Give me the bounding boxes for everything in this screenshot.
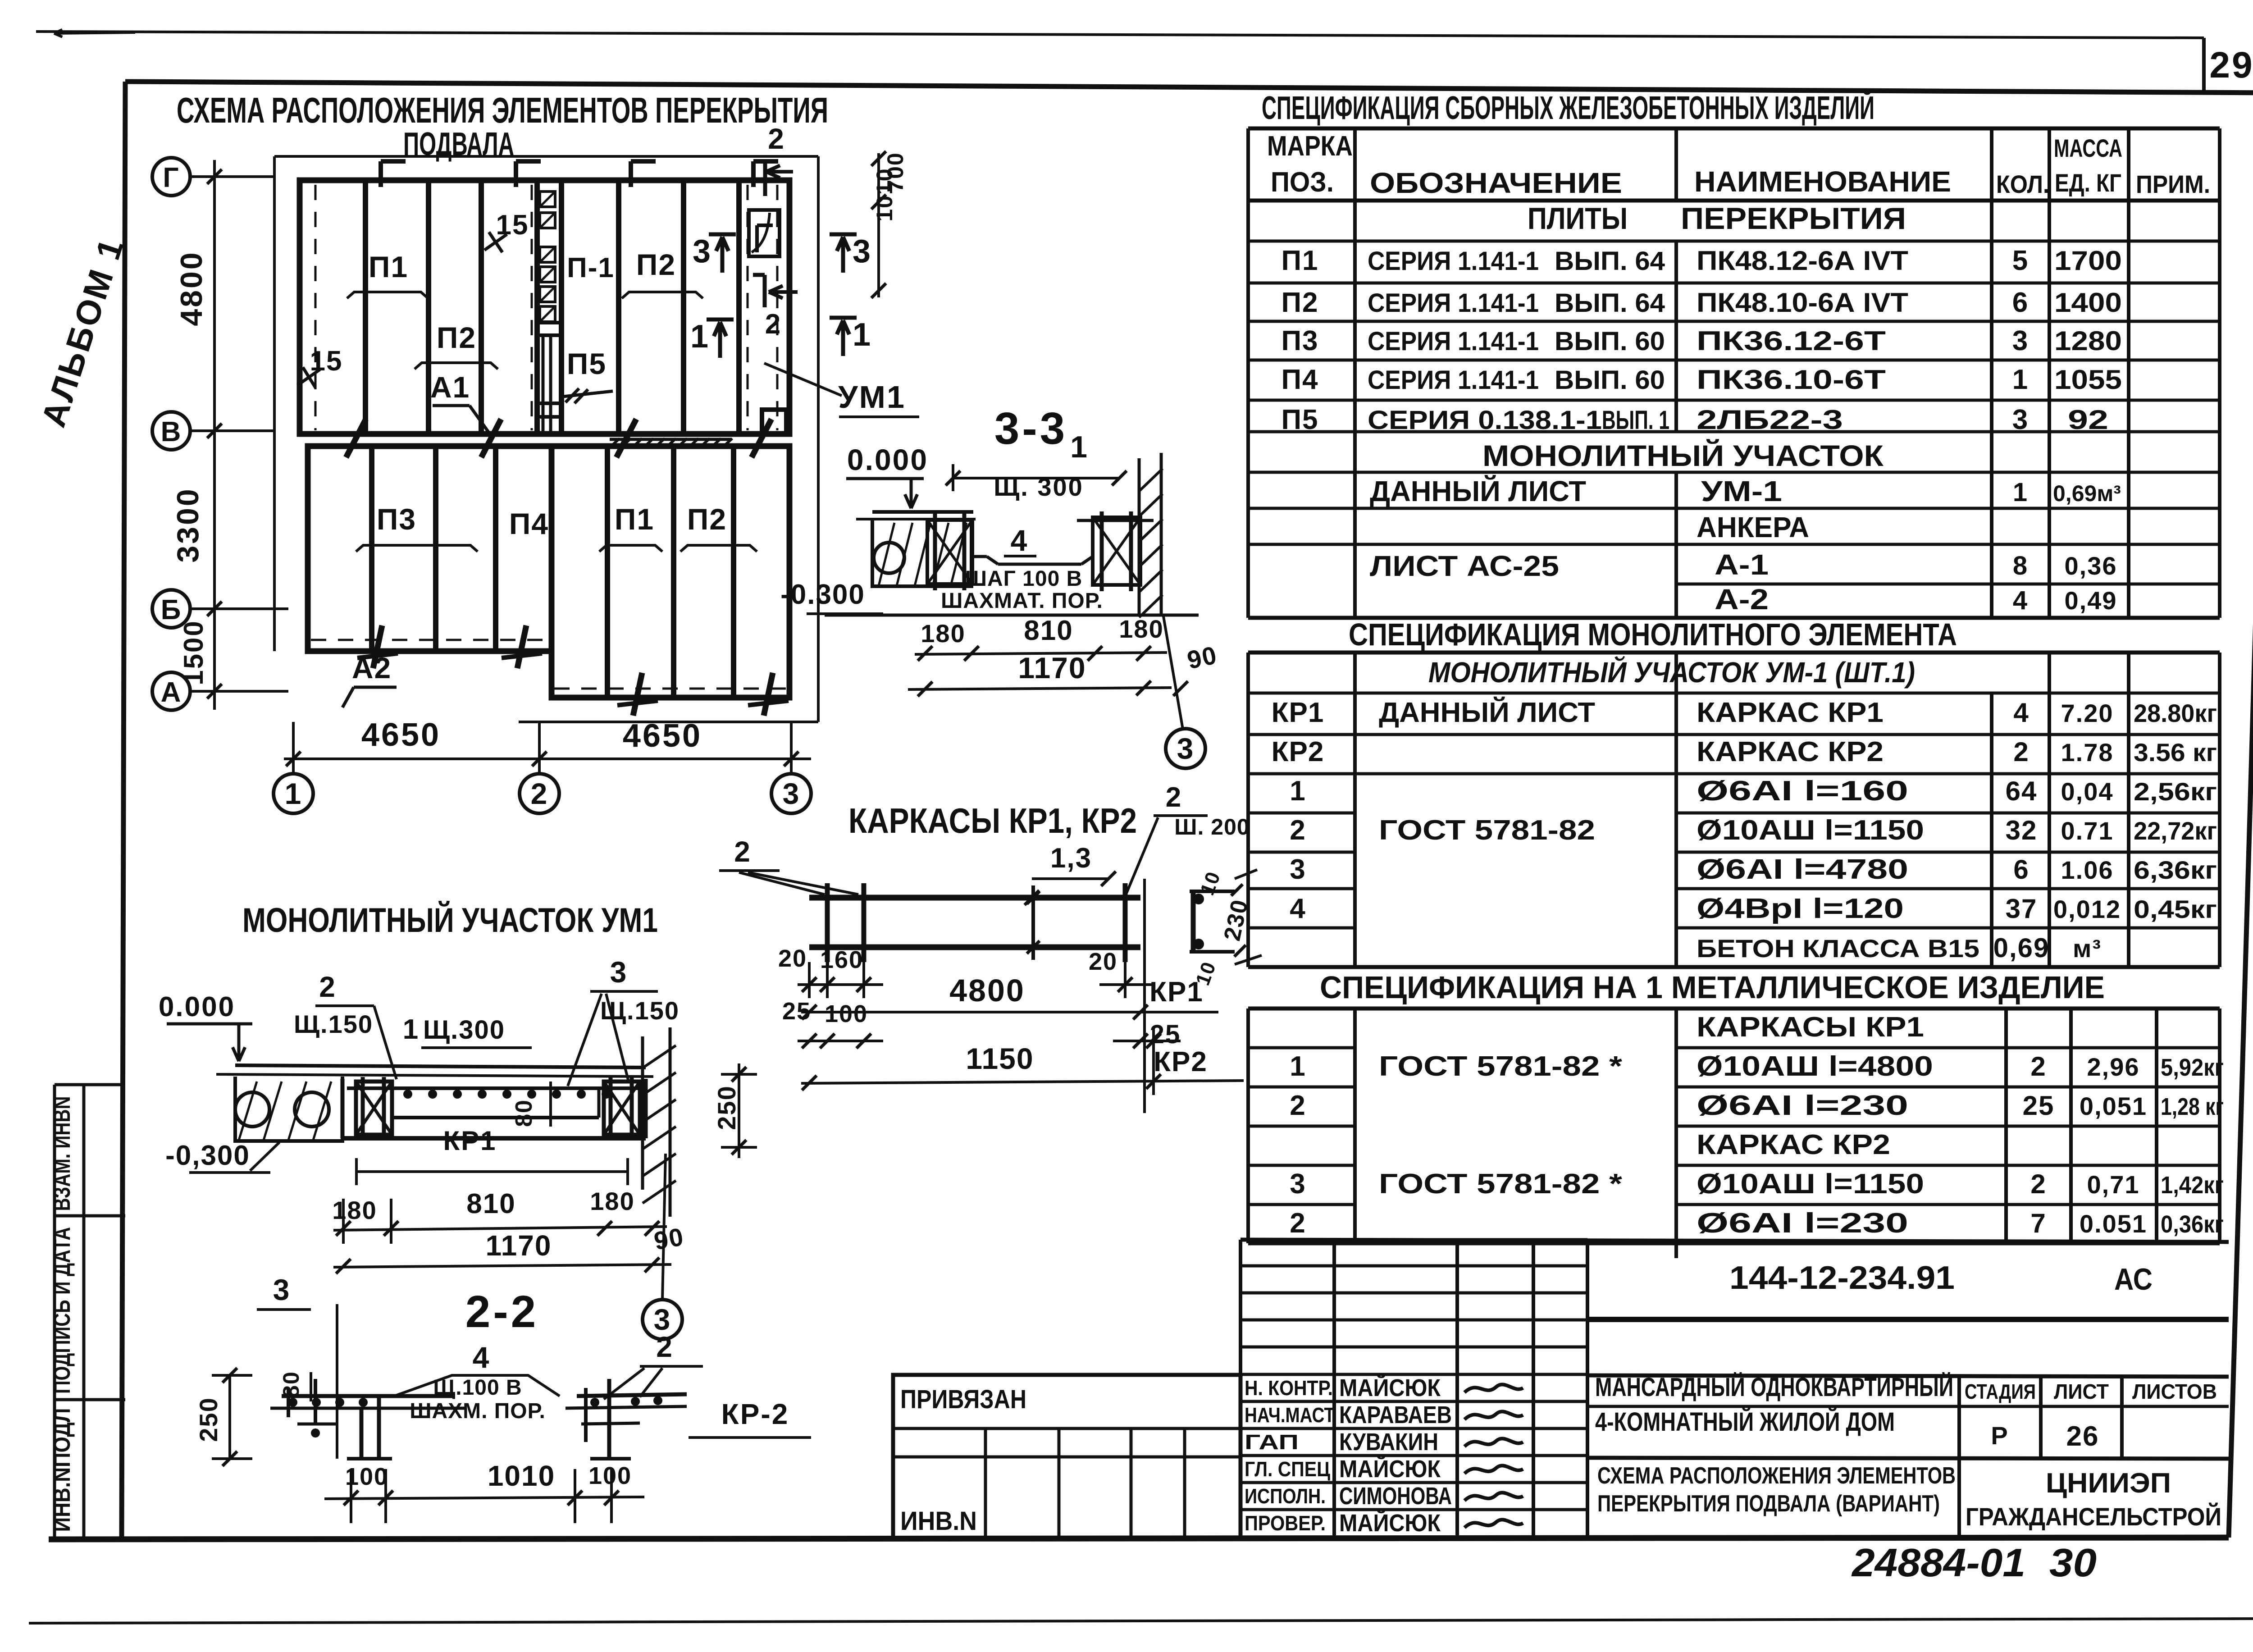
svg-text:ПК48.10-6А IVТ: ПК48.10-6А IVТ	[1697, 288, 1908, 318]
svg-text:1: 1	[2013, 478, 2028, 507]
svg-text:3: 3	[1177, 732, 1195, 765]
svg-text:П1: П1	[369, 250, 408, 283]
svg-text:0,36кг: 0,36кг	[2161, 1211, 2224, 1238]
svg-text:3: 3	[693, 233, 711, 269]
svg-text:ГОСТ 5781-82 *: ГОСТ 5781-82 *	[1379, 1168, 1623, 1200]
svg-text:1: 1	[1290, 776, 1305, 807]
svg-text:3: 3	[1290, 854, 1305, 885]
svg-text:0,49: 0,49	[2065, 586, 2117, 615]
svg-text:П5: П5	[567, 347, 607, 380]
svg-text:0,36: 0,36	[2065, 552, 2117, 580]
svg-text:29: 29	[2209, 45, 2253, 86]
svg-text:ИНВ.N: ИНВ.N	[900, 1506, 977, 1536]
svg-text:Ø4ВрI l=120: Ø4ВрI l=120	[1697, 893, 1904, 924]
svg-text:180: 180	[590, 1187, 634, 1215]
svg-text:ПЛИТЫ: ПЛИТЫ	[1528, 201, 1628, 236]
svg-text:25: 25	[782, 998, 811, 1025]
svg-text:НАИМЕНОВАНИЕ: НАИМЕНОВАНИЕ	[1694, 165, 1951, 198]
svg-text:2: 2	[1290, 1208, 1305, 1239]
svg-text:Ш. 200: Ш. 200	[1174, 814, 1250, 840]
svg-text:ПК36.10-6Т: ПК36.10-6Т	[1697, 365, 1886, 395]
svg-text:1.06: 1.06	[2061, 856, 2114, 884]
svg-text:КАРКАС КР2: КАРКАС КР2	[1697, 1129, 1890, 1160]
svg-text:КАРКАСЫ КР1, КР2: КАРКАСЫ КР1, КР2	[848, 801, 1137, 840]
svg-text:П2: П2	[1281, 287, 1318, 318]
svg-text:ВЫП. 64: ВЫП. 64	[1555, 246, 1665, 276]
svg-text:15: 15	[496, 210, 529, 241]
svg-text:64: 64	[2006, 776, 2038, 806]
svg-text:2: 2	[768, 123, 785, 155]
svg-text:144-12-234.91: 144-12-234.91	[1729, 1260, 1955, 1296]
svg-text:СЕРИЯ 1.141-1: СЕРИЯ 1.141-1	[1368, 327, 1539, 356]
svg-text:1400: 1400	[2054, 288, 2122, 318]
svg-text:ПРИМ.: ПРИМ.	[2136, 170, 2210, 198]
svg-text:П3: П3	[1281, 325, 1318, 356]
svg-text:П5: П5	[1281, 404, 1318, 435]
svg-text:ШАГ 100 В: ШАГ 100 В	[965, 567, 1083, 591]
svg-text:ПЕРЕКРЫТИЯ: ПЕРЕКРЫТИЯ	[1681, 201, 1906, 236]
svg-text:1280: 1280	[2054, 326, 2122, 356]
svg-text:25: 25	[2023, 1091, 2055, 1121]
svg-text:ГОСТ 5781-82: ГОСТ 5781-82	[1379, 815, 1595, 846]
svg-text:1150: 1150	[966, 1042, 1034, 1075]
svg-text:-0,300: -0,300	[165, 1140, 250, 1171]
svg-text:2: 2	[1290, 1090, 1305, 1121]
svg-text:4800: 4800	[174, 251, 209, 326]
svg-text:Ø10АШ l=1150: Ø10АШ l=1150	[1697, 815, 1924, 846]
svg-text:0,71: 0,71	[2087, 1170, 2140, 1199]
svg-text:ГАП: ГАП	[1245, 1430, 1299, 1454]
svg-text:1500: 1500	[178, 620, 209, 685]
svg-text:АС: АС	[2114, 1262, 2153, 1296]
svg-text:МАРКА: МАРКА	[1267, 131, 1353, 162]
svg-text:СХЕМА РАСПОЛОЖЕНИЯ ЭЛЕМЕНТОВ: СХЕМА РАСПОЛОЖЕНИЯ ЭЛЕМЕНТОВ	[1597, 1463, 1956, 1489]
svg-text:МАНСАРДНЫЙ ОДНОКВАРТИРНЫЙ: МАНСАРДНЫЙ ОДНОКВАРТИРНЫЙ	[1595, 1373, 1953, 1402]
svg-text:П2: П2	[437, 321, 476, 354]
svg-text:22,72кг: 22,72кг	[2134, 817, 2217, 845]
svg-text:СПЕЦИФИКАЦИЯ СБОРНЫХ ЖЕЛЕ: СПЕЦИФИКАЦИЯ СБОРНЫХ ЖЕЛЕЗОБЕТОННЫХ ИЗДЕ…	[1262, 89, 1874, 126]
svg-text:2,56кг: 2,56кг	[2134, 777, 2217, 806]
svg-text:2ЛБ22-3: 2ЛБ22-3	[1697, 405, 1843, 435]
svg-text:ПОДПИСЬ И ДАТА: ПОДПИСЬ И ДАТА	[49, 1227, 75, 1394]
svg-text:32: 32	[2006, 815, 2038, 845]
svg-text:180: 180	[332, 1196, 377, 1224]
svg-text:ВЗАМ. ИНВN: ВЗАМ. ИНВN	[49, 1096, 75, 1211]
svg-text:4: 4	[2013, 586, 2028, 615]
svg-text:1055: 1055	[2054, 365, 2122, 395]
svg-text:П1: П1	[615, 502, 654, 536]
svg-text:ВЫП. 1: ВЫП. 1	[1602, 406, 1669, 435]
svg-text:4-КОМНАТНЫЙ ЖИЛОЙ ДОМ: 4-КОМНАТНЫЙ ЖИЛОЙ ДОМ	[1595, 1407, 1895, 1437]
svg-text:ОБОЗНАЧЕНИЕ: ОБОЗНАЧЕНИЕ	[1370, 167, 1622, 199]
svg-text:ПК48.12-6А IVТ: ПК48.12-6А IVТ	[1697, 246, 1908, 276]
svg-text:В: В	[161, 416, 182, 447]
svg-text:СХЕМА РАСПОЛОЖЕНИЯ ЭЛЕМЕНТОВ П: СХЕМА РАСПОЛОЖЕНИЯ ЭЛЕМЕНТОВ ПЕРЕКРЫТИЯ	[177, 90, 828, 130]
svg-text:А-2: А-2	[1715, 583, 1769, 616]
svg-text:ГЛ. СПЕЦ: ГЛ. СПЕЦ	[1245, 1457, 1330, 1481]
svg-text:1: 1	[1070, 430, 1088, 464]
svg-text:П4: П4	[509, 507, 549, 540]
svg-text:2: 2	[531, 777, 548, 810]
svg-text:0,45кг: 0,45кг	[2134, 895, 2217, 923]
svg-text:4: 4	[2013, 698, 2029, 728]
svg-text:КУВАКИН: КУВАКИН	[1339, 1428, 1438, 1456]
svg-text:6: 6	[2012, 287, 2029, 318]
svg-text:СПЕЦИФИКАЦИЯ НА 1 МЕТАЛЛИЧЕС: СПЕЦИФИКАЦИЯ НА 1 МЕТАЛЛИЧЕСКОЕ ИЗДЕЛИЕ	[1320, 970, 2105, 1005]
svg-text:3: 3	[610, 955, 628, 989]
svg-text:26: 26	[2066, 1421, 2099, 1452]
svg-text:7.20: 7.20	[2061, 699, 2114, 727]
svg-text:АНКЕРА: АНКЕРА	[1697, 511, 1809, 543]
svg-text:5,92кг: 5,92кг	[2161, 1054, 2224, 1081]
svg-text:3: 3	[2012, 404, 2029, 435]
svg-text:КР1: КР1	[1149, 977, 1204, 1008]
svg-text:ШАХМАТ. ПОР.: ШАХМАТ. ПОР.	[941, 589, 1103, 613]
svg-text:МОНОЛИТНЫЙ УЧАСТОК УМ-1 (ШТ.: МОНОЛИТНЫЙ УЧАСТОК УМ-1 (ШТ.1)	[1428, 655, 1915, 689]
svg-text:А1: А1	[430, 370, 470, 404]
svg-text:0,69м³: 0,69м³	[2053, 481, 2121, 506]
svg-text:1.78: 1.78	[2061, 738, 2114, 767]
svg-text:80: 80	[511, 1099, 537, 1127]
svg-text:Ø6АI l=230: Ø6АI l=230	[1697, 1208, 1908, 1239]
svg-text:КР2: КР2	[1272, 736, 1324, 767]
svg-text:100: 100	[825, 1000, 868, 1027]
svg-text:24884-01: 24884-01	[1851, 1540, 2025, 1585]
svg-text:1: 1	[690, 319, 709, 355]
svg-text:6: 6	[2013, 854, 2029, 885]
svg-text:КАРКАС КР2: КАРКАС КР2	[1697, 736, 1884, 767]
svg-text:КР-2: КР-2	[721, 1398, 789, 1430]
svg-text:2: 2	[656, 1331, 673, 1363]
svg-text:НАЧ.МАСТ: НАЧ.МАСТ	[1245, 1403, 1335, 1427]
svg-text:3: 3	[783, 777, 800, 810]
svg-text:90: 90	[652, 1222, 686, 1255]
svg-text:СПЕЦИФИКАЦИЯ МОНОЛИТНОГО ЭЛЕ: СПЕЦИФИКАЦИЯ МОНОЛИТНОГО ЭЛЕМЕНТА	[1349, 617, 1957, 652]
svg-text:0.051: 0.051	[2080, 1209, 2147, 1238]
svg-text:7: 7	[2030, 1208, 2046, 1238]
svg-text:КР1: КР1	[1272, 697, 1324, 728]
svg-text:МАЙСЮК: МАЙСЮК	[1339, 1509, 1441, 1537]
svg-text:0,051: 0,051	[2080, 1092, 2147, 1120]
svg-text:37: 37	[2006, 894, 2038, 924]
svg-text:ГОСТ 5781-82 *: ГОСТ 5781-82 *	[1379, 1051, 1623, 1082]
svg-text:МАССА: МАССА	[2054, 134, 2122, 162]
svg-text:ЦНИИЭП: ЦНИИЭП	[2046, 1468, 2171, 1499]
svg-text:Щ.300: Щ.300	[423, 1015, 505, 1045]
svg-text:4: 4	[473, 1341, 490, 1374]
svg-text:м³: м³	[2073, 934, 2102, 963]
svg-text:Г: Г	[163, 162, 179, 193]
svg-text:28.80кг: 28.80кг	[2134, 699, 2217, 727]
svg-text:СЕРИЯ 1.141-1: СЕРИЯ 1.141-1	[1368, 288, 1539, 318]
svg-text:8: 8	[2013, 551, 2028, 580]
svg-text:КАРКАС КР1: КАРКАС КР1	[1697, 697, 1884, 728]
svg-text:1,28 кг: 1,28 кг	[2161, 1093, 2224, 1120]
svg-text:180: 180	[1119, 615, 1163, 643]
svg-text:Ø6АI l=230: Ø6АI l=230	[1697, 1090, 1908, 1121]
svg-text:ПРИВЯЗАН: ПРИВЯЗАН	[900, 1385, 1026, 1414]
svg-text:3-3: 3-3	[994, 403, 1068, 454]
svg-text:Ø10АШ l=4800: Ø10АШ l=4800	[1697, 1051, 1933, 1082]
svg-text:ИСПОЛН.: ИСПОЛН.	[1245, 1484, 1326, 1508]
svg-text:3: 3	[273, 1273, 291, 1306]
svg-text:6,36кг: 6,36кг	[2134, 856, 2217, 884]
svg-text:4: 4	[1011, 524, 1028, 557]
svg-text:КР2: КР2	[1154, 1046, 1208, 1077]
svg-text:2: 2	[765, 309, 781, 340]
svg-text:2: 2	[1290, 815, 1305, 846]
svg-text:0,012: 0,012	[2053, 895, 2121, 923]
svg-text:СИМОНОВА: СИМОНОВА	[1339, 1483, 1452, 1510]
svg-text:ВЫП. 60: ВЫП. 60	[1555, 327, 1665, 356]
svg-text:КАРАВАЕВ: КАРАВАЕВ	[1339, 1401, 1452, 1428]
svg-text:ДАННЫЙ ЛИСТ: ДАННЫЙ ЛИСТ	[1370, 475, 1586, 507]
svg-text:4650: 4650	[623, 718, 702, 754]
svg-text:20: 20	[778, 945, 807, 972]
svg-text:Щ.150: Щ.150	[294, 1010, 373, 1038]
svg-text:1010: 1010	[872, 168, 897, 221]
svg-text:П2: П2	[636, 248, 676, 281]
svg-text:МОНОЛИТНЫЙ УЧАСТОК: МОНОЛИТНЫЙ УЧАСТОК	[1482, 438, 1884, 472]
svg-text:Ø6АI l=160: Ø6АI l=160	[1697, 776, 1908, 807]
svg-text:30: 30	[2049, 1540, 2097, 1585]
svg-text:4: 4	[1290, 893, 1305, 924]
svg-text:0.000: 0.000	[847, 443, 928, 476]
svg-text:ПРОВЕР.: ПРОВЕР.	[1245, 1511, 1326, 1535]
svg-text:СТАДИЯ: СТАДИЯ	[1965, 1380, 2036, 1403]
svg-text:Щ. 300: Щ. 300	[994, 473, 1084, 501]
svg-text:810: 810	[466, 1188, 515, 1219]
svg-text:П-1: П-1	[567, 252, 615, 283]
svg-text:1: 1	[285, 777, 302, 810]
svg-text:ЛИСТ: ЛИСТ	[2054, 1380, 2109, 1403]
svg-text:1: 1	[2012, 364, 2029, 395]
svg-text:КОЛ.: КОЛ.	[1996, 170, 2049, 198]
svg-text:0.71: 0.71	[2061, 817, 2114, 845]
svg-text:90: 90	[1185, 640, 1220, 674]
svg-text:СЕРИЯ 1.141-1: СЕРИЯ 1.141-1	[1368, 246, 1539, 276]
svg-text:2: 2	[734, 835, 751, 868]
svg-text:ЕД. КГ: ЕД. КГ	[2055, 169, 2121, 197]
svg-text:0.000: 0.000	[159, 991, 235, 1022]
svg-text:1: 1	[403, 1014, 419, 1045]
svg-text:1,42кг: 1,42кг	[2161, 1172, 2224, 1199]
svg-text:250: 250	[194, 1397, 223, 1442]
svg-text:П3: П3	[377, 502, 416, 536]
svg-text:ВЫП. 60: ВЫП. 60	[1555, 365, 1665, 395]
svg-text:3.56 кг: 3.56 кг	[2134, 738, 2217, 767]
svg-text:80: 80	[278, 1371, 304, 1398]
svg-text:ПОЗ.: ПОЗ.	[1271, 167, 1334, 198]
svg-text:КАРКАСЫ КР1: КАРКАСЫ КР1	[1697, 1012, 1924, 1043]
svg-text:3: 3	[1290, 1168, 1305, 1200]
svg-text:ДАННЫЙ ЛИСТ: ДАННЫЙ ЛИСТ	[1379, 697, 1595, 728]
svg-text:2: 2	[2030, 1051, 2046, 1082]
svg-text:4800: 4800	[949, 973, 1025, 1008]
svg-text:250: 250	[712, 1085, 741, 1130]
svg-text:2: 2	[1166, 782, 1182, 813]
svg-text:2: 2	[319, 971, 336, 1003]
svg-text:ПК36.12-6Т: ПК36.12-6Т	[1697, 326, 1886, 356]
svg-text:2: 2	[2013, 737, 2029, 767]
svg-text:1170: 1170	[1018, 651, 1086, 685]
svg-text:3300: 3300	[171, 487, 205, 562]
svg-text:ПЕРЕКРЫТИЯ ПОДВАЛА (ВАРИАНТ): ПЕРЕКРЫТИЯ ПОДВАЛА (ВАРИАНТ)	[1597, 1491, 1940, 1517]
svg-text:3: 3	[2012, 325, 2029, 356]
svg-text:0,69: 0,69	[1993, 933, 2050, 963]
svg-text:КР1: КР1	[443, 1126, 497, 1156]
svg-text:УМ-1: УМ-1	[1701, 475, 1782, 507]
svg-text:ГРАЖДАНСЕЛЬСТРОЙ: ГРАЖДАНСЕЛЬСТРОЙ	[1966, 1502, 2221, 1531]
svg-text:2-2: 2-2	[465, 1287, 539, 1337]
svg-text:2,96: 2,96	[2087, 1053, 2140, 1081]
svg-text:20: 20	[1089, 948, 1117, 975]
svg-text:92: 92	[2068, 405, 2108, 435]
svg-text:МОНОЛИТНЫЙ УЧАСТОК УМ1: МОНОЛИТНЫЙ УЧАСТОК УМ1	[242, 901, 658, 940]
svg-text:ШАХМ. ПОР.: ШАХМ. ПОР.	[410, 1399, 546, 1423]
svg-text:Н. КОНТР.: Н. КОНТР.	[1245, 1376, 1333, 1400]
svg-text:0,04: 0,04	[2061, 777, 2114, 806]
svg-text:П4: П4	[1281, 364, 1318, 395]
svg-text:1,3: 1,3	[1050, 843, 1092, 874]
svg-text:ЛИСТ АС-25: ЛИСТ АС-25	[1370, 550, 1559, 582]
svg-text:1170: 1170	[486, 1229, 552, 1262]
svg-text:МАЙСЮК: МАЙСЮК	[1339, 1374, 1441, 1401]
svg-text:810: 810	[1024, 615, 1073, 646]
svg-text:3: 3	[853, 233, 871, 269]
svg-text:1: 1	[1290, 1051, 1305, 1082]
svg-text:180: 180	[921, 619, 965, 648]
svg-text:СЕРИЯ 1.141-1: СЕРИЯ 1.141-1	[1368, 365, 1539, 395]
svg-text:ВЫП. 64: ВЫП. 64	[1555, 288, 1665, 318]
svg-text:ИНВ.NПОДЛ: ИНВ.NПОДЛ	[49, 1408, 75, 1532]
svg-text:1010: 1010	[488, 1460, 555, 1492]
svg-text:5: 5	[2012, 245, 2029, 276]
svg-text:2: 2	[2030, 1169, 2046, 1199]
svg-text:МАЙСЮК: МАЙСЮК	[1339, 1455, 1441, 1483]
svg-text:П2: П2	[687, 502, 727, 536]
svg-text:Ø10АШ l=1150: Ø10АШ l=1150	[1697, 1168, 1924, 1200]
svg-text:УМ1: УМ1	[838, 379, 906, 415]
svg-text:-0.300: -0.300	[780, 579, 865, 610]
svg-text:СЕРИЯ 0.138.1-1: СЕРИЯ 0.138.1-1	[1368, 406, 1602, 435]
svg-text:ЛИСТОВ: ЛИСТОВ	[2132, 1380, 2217, 1403]
svg-text:1: 1	[853, 317, 871, 353]
svg-text:4650: 4650	[361, 717, 441, 753]
svg-text:Р: Р	[1991, 1421, 2008, 1450]
svg-text:Ø6АI l=4780: Ø6АI l=4780	[1697, 854, 1908, 885]
svg-text:БЕТОН КЛАССА В15: БЕТОН КЛАССА В15	[1697, 934, 1979, 963]
svg-text:П1: П1	[1281, 245, 1318, 276]
svg-text:А-1: А-1	[1715, 548, 1769, 581]
svg-text:1700: 1700	[2054, 246, 2122, 276]
